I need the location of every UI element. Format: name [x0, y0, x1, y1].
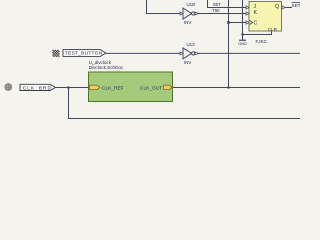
svg-text:TEST_BUTTON: TEST_BUTTON [65, 51, 103, 57]
sheet entry CLK_OUT [164, 85, 173, 89]
svg-text:K: K [254, 10, 258, 16]
svg-text:CLK_OUT: CLK_OUT [140, 85, 162, 91]
junction at CLR/GND node [241, 33, 243, 35]
pin arrow Q output [282, 6, 285, 9]
svg-text:CLK_BRD: CLK_BRD [23, 86, 52, 92]
svg-text:T6K: T6K [212, 8, 220, 13]
overbar of inverted net label [292, 1, 301, 3]
compile-mask icon near TEST_BUTTON [52, 50, 59, 57]
svg-text:CLK_REF: CLK_REF [102, 85, 124, 91]
inverter U13 triangle [183, 48, 192, 59]
wire: TEST_BUTTON to U13 input [106, 52, 180, 54]
clock mark on pin C [250, 21, 253, 25]
svg-text:CLR: CLR [268, 27, 278, 32]
svg-text:U1B: U1B [187, 2, 196, 7]
pin arrow J [246, 6, 249, 9]
port TEST_BUTTON [63, 50, 106, 57]
svg-text:SET: SET [292, 3, 301, 8]
svg-text:FJKC: FJKC [256, 39, 268, 44]
inverter U13 input arrow [180, 52, 183, 55]
inverter U13 bubble [192, 52, 195, 55]
wire: U13 output to right edge [198, 52, 301, 54]
junction at CLK_BRD branch [67, 86, 69, 88]
pin arrow C [246, 21, 249, 24]
svg-text:INV: INV [184, 60, 191, 65]
svg-text:INV: INV [184, 20, 191, 25]
wire: CLK_BRD port to sheet symbol [56, 87, 89, 89]
svg-text:C: C [254, 20, 258, 26]
wire: CLK_OUT to right edge [173, 87, 301, 89]
wire: CLR horizontal to pin under flip-flop [243, 31, 272, 35]
wire: Q output to net label [285, 7, 292, 9]
svg-text:U13: U13 [187, 42, 196, 47]
svg-text:Divclock.SchDoc: Divclock.SchDoc [89, 65, 124, 70]
inverter U1B input arrow [180, 12, 183, 15]
sheet entry CLK_REF [90, 85, 101, 89]
inverter U1B bubble [192, 12, 195, 15]
wire: clock vertical from top down to CLK_OUT net [228, 0, 230, 88]
pin arrow K [246, 12, 249, 15]
wire: branch down and right along bottom [69, 88, 301, 119]
wire: U1B output to K pin [198, 13, 247, 15]
wire: CLR vertical from top (node at x=242) [242, 0, 244, 40]
inverter U13 output arrow [195, 52, 198, 55]
sheet symbol U_divclock body [89, 72, 173, 102]
svg-text:GND: GND [238, 42, 247, 46]
probe icon near CLK_BRD [5, 84, 12, 91]
inverter U1B triangle [183, 8, 192, 19]
port CLK_BRD [20, 84, 56, 90]
wire: branch to C pin [229, 22, 247, 24]
flip-flop U? body FJKC [249, 2, 282, 32]
svg-text:Q: Q [275, 4, 279, 10]
ground GND bar [239, 39, 246, 41]
wire: vertical from top to J pin (node at x=207) [208, 0, 247, 8]
inverter U1B output arrow [195, 12, 198, 15]
svg-text:J: J [254, 4, 257, 10]
wire: vertical from top into U1B input (node at x=146) [147, 0, 181, 14]
svg-text:SET: SET [213, 2, 222, 7]
junction at clock vertical / CLK_OUT [227, 86, 229, 88]
junction at C branch [227, 21, 230, 24]
